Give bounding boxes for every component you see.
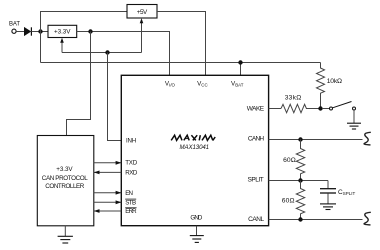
wire WAKE [269, 108, 281, 110]
node BAT terminal [12, 29, 16, 33]
svg-text:CONTROLLER: CONTROLLER [45, 183, 85, 190]
svg-text:TXD: TXD [125, 159, 138, 166]
wire VBAT rail [41, 62, 321, 64]
resistor 10k vertical [317, 63, 325, 109]
wire INH arrow to +3.3V enable [61, 42, 63, 53]
svg-text:60Ω: 60Ω [283, 157, 296, 164]
svg-text:GND: GND [190, 215, 203, 222]
regulator +3.3V box [48, 25, 77, 37]
op-amp U1 MAX13041 IC body [121, 75, 268, 225]
wire +3.3V to controller supply [67, 32, 91, 136]
node SPLIT junction [298, 178, 302, 182]
svg-text:+3.3V: +3.3V [54, 29, 71, 36]
svg-text:+3.3V: +3.3V [56, 166, 73, 173]
diode D1 [24, 27, 31, 36]
node junction after diode [38, 29, 42, 33]
wire junction down to VBAT rail [40, 32, 42, 63]
wire VBAT to pin [240, 63, 242, 76]
node VBAT junction [238, 60, 242, 64]
wire TXD [94, 162, 122, 164]
svg-text:INH: INH [126, 138, 136, 145]
resistor 60 ohm upper [296, 140, 304, 181]
ground capacitor [320, 204, 336, 210]
svg-text:WAKE: WAKE [247, 105, 265, 112]
wire EN [94, 192, 122, 194]
wire SPLIT [269, 180, 328, 182]
capacitor CSPLIT [320, 189, 336, 193]
regulator +5V box [127, 5, 157, 19]
wire SPLIT to capacitor [327, 181, 329, 189]
svg-text:CANH: CANH [248, 135, 264, 142]
svg-text:CSPLIT: CSPLIT [338, 189, 355, 196]
svg-text:ERR: ERR [125, 208, 137, 215]
svg-text:10kΩ: 10kΩ [327, 78, 342, 85]
wire INH arrow to +5V enable [141, 22, 143, 52]
wire CANH [269, 139, 363, 141]
svg-text:CAN PROTOCOL: CAN PROTOCOL [42, 175, 88, 182]
wire junction up to +5V feed [41, 12, 128, 32]
ground IC [190, 236, 204, 243]
switch S1 [323, 108, 330, 110]
wire BAT to diode [16, 31, 24, 33]
svg-text:STB: STB [125, 199, 136, 206]
controller box [37, 136, 94, 226]
node WAKE junction [318, 106, 322, 110]
node INH junction [105, 50, 109, 54]
ground switch [347, 123, 361, 129]
bus break squiggle CANL [364, 212, 371, 225]
svg-text:+5V: +5V [137, 9, 148, 16]
svg-text:60Ω: 60Ω [282, 198, 295, 205]
resistor 60 ohm lower [296, 181, 304, 220]
wire +5V output to VCC [157, 12, 206, 76]
svg-text:EN: EN [125, 190, 133, 197]
svg-text:BAT: BAT [9, 22, 20, 28]
wire CANL [269, 219, 363, 221]
wire GND pin [196, 226, 198, 236]
node CANH junction [298, 137, 302, 141]
svg-text:VI/O: VI/O [165, 80, 176, 87]
wire INH control line [62, 52, 142, 54]
wire diode to +3.3V regulator input [31, 31, 48, 33]
logo MAXIM [171, 135, 215, 140]
svg-text:SPLIT: SPLIT [248, 177, 264, 184]
resistor 33k horizontal [281, 104, 321, 112]
wire STB [94, 201, 122, 203]
svg-text:VBAT: VBAT [231, 80, 244, 87]
svg-text:VCC: VCC [197, 80, 208, 87]
wire +3.3V output to VI/O [77, 32, 170, 76]
wire ERR [94, 210, 122, 212]
svg-text:RXD: RXD [125, 169, 138, 176]
svg-text:MAX13041: MAX13041 [180, 144, 210, 151]
wire switch to ground [353, 110, 355, 123]
wire RXD [94, 171, 122, 173]
svg-text:CANL: CANL [248, 216, 264, 223]
svg-text:33kΩ: 33kΩ [285, 95, 302, 102]
bus break squiggle CANH [364, 132, 371, 145]
ground controller [64, 226, 66, 237]
node +3.3V output junction [88, 29, 92, 33]
node CANL junction [298, 217, 302, 221]
wire INH to IC [108, 53, 122, 141]
